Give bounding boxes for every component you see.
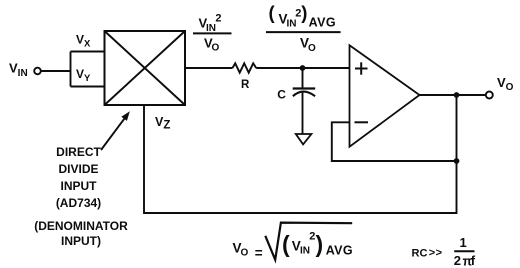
net label VIN^2 / VO fraction [193,13,232,54]
svg-text:INPUT): INPUT) [61,234,101,248]
svg-text:C: C [277,87,286,101]
svg-text:IN: IN [287,19,297,30]
wire capacitor to ground [302,93,304,135]
svg-text:): ) [301,2,307,23]
svg-text:AVG: AVG [309,15,336,29]
svg-text:AVG: AVG [326,243,353,257]
wire output feedback to VZ [144,95,457,213]
svg-text:DIVIDE: DIVIDE [58,162,98,176]
net label (VIN^2)AVG / VO fraction [266,2,341,54]
junction node filter [300,65,306,71]
wire VX input [71,51,105,53]
wire op-amp output [420,94,486,96]
svg-text:>>: >> [429,247,443,259]
formula RC >> 1/(2 pi f) [412,235,476,268]
svg-text:(: ( [282,231,290,257]
annotation (DENOMINATOR INPUT) [34,219,128,248]
svg-text:(AD734): (AD734) [56,196,101,210]
junction node output [454,92,460,98]
wire inverting input feedback loop [332,122,457,161]
wire resistor to op-amp noninverting input [256,67,349,69]
svg-text:VZ: VZ [155,115,170,131]
svg-text:VX: VX [76,33,91,50]
ground [296,134,312,144]
wire multiplier output to resistor [185,67,233,69]
svg-text:IN: IN [300,246,310,257]
output terminal VO [486,92,493,99]
svg-text:VIN: VIN [9,61,28,80]
capacitor C [293,89,316,97]
annotation DIRECT DIVIDE INPUT (AD734) [56,145,102,210]
op-amp plus pin marking [355,62,368,74]
svg-text:2: 2 [309,231,315,243]
wire VIN terminal to input bracket [41,70,71,72]
svg-text:=: = [255,245,263,260]
input terminal VIN [34,68,41,75]
svg-text:2: 2 [454,253,461,268]
formula VO = sqrt((VIN^2) AVG) [233,223,354,261]
annotation arrow to VZ input [101,111,130,150]
svg-text:O: O [212,43,220,54]
svg-text:2: 2 [215,13,221,25]
svg-text:VO: VO [497,75,514,93]
op-amp minus pin marking [355,121,369,123]
svg-text:): ) [316,231,324,257]
svg-text:1: 1 [460,235,467,250]
wire input bracket vertical [70,52,72,87]
op-amp U2 [350,45,420,146]
svg-text:O: O [308,43,316,54]
multiplier U1 (AD734 core) [105,31,186,105]
svg-text:(DENOMINATOR: (DENOMINATOR [34,219,128,233]
svg-text:VY: VY [76,67,91,84]
svg-text:O: O [241,248,249,259]
svg-text:(: ( [269,2,276,23]
resistor R [233,63,257,72]
svg-text:R: R [241,79,250,91]
svg-text:f: f [471,253,476,268]
wire junction to capacitor [302,68,304,89]
wire VY input [71,86,105,88]
svg-text:RC: RC [412,248,428,260]
svg-text:INPUT: INPUT [61,179,98,193]
svg-text:DIRECT: DIRECT [56,145,101,159]
junction node feedback [454,158,460,164]
